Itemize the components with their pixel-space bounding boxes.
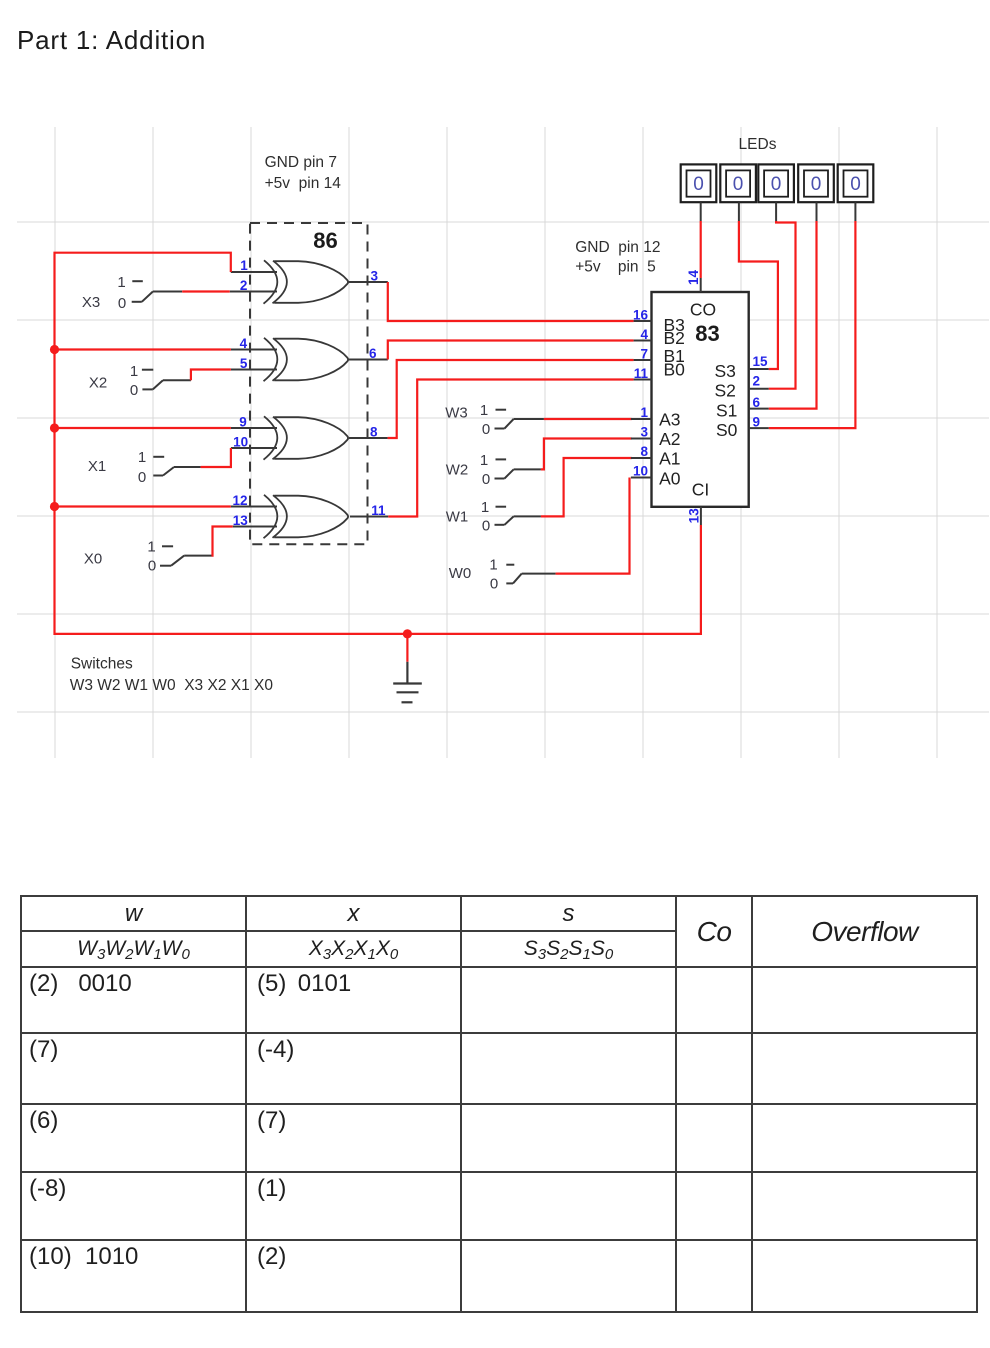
pin number 3 (U2 left) — [640, 425, 648, 440]
wire: LED1 to CO (pin 14) — [700, 221, 702, 278]
wire: CO pin 14 stub — [700, 278, 702, 292]
wire: B0 pin stub — [634, 379, 652, 381]
wire: pin 2 stub U1A — [230, 291, 277, 293]
wire: B2 pin stub — [634, 340, 652, 342]
svg-text:GND pin 7: GND pin 7 — [265, 154, 337, 171]
wire: pin 10 stub U1C — [231, 447, 277, 449]
svg-text:10: 10 — [633, 464, 648, 479]
LED indicator 2 — [720, 164, 756, 202]
ground symbol — [393, 662, 422, 703]
switch X2 — [89, 363, 191, 399]
wire: X2 switch to pin 5 — [191, 370, 231, 381]
svg-text:12: 12 — [232, 493, 247, 508]
svg-text:0: 0 — [811, 174, 822, 195]
svg-text:S2: S2 — [715, 381, 736, 401]
svg-text:1: 1 — [117, 274, 125, 291]
title — [17, 25, 206, 56]
svg-text:B0: B0 — [664, 360, 686, 380]
svg-text:+5v pin 14: +5v pin 14 — [265, 175, 342, 192]
chip port label A2 — [659, 429, 680, 449]
svg-text:8: 8 — [370, 425, 378, 440]
svg-text:X2: X2 — [89, 375, 107, 392]
wire: LED3 to S2 (pin 2) — [769, 221, 796, 389]
pin number 2 (U2 right) — [753, 374, 761, 389]
pin number 1 (U2 left) — [640, 405, 648, 420]
pin number 10 (U1) — [233, 435, 248, 450]
svg-text:0: 0 — [482, 421, 490, 438]
chip port label A3 — [659, 410, 680, 430]
wire: pin 9 stub U1C — [231, 427, 277, 429]
pin number 5 (U1) — [240, 356, 248, 371]
wire: S3 pin stub — [749, 368, 769, 370]
pin number 7 (U2 left) — [640, 347, 648, 362]
wire: pin 5 stub U1B — [231, 369, 277, 371]
chip port label B0 — [664, 360, 686, 380]
wire: S2 pin stub — [749, 388, 769, 390]
wire: LED3 output stub — [775, 202, 777, 221]
svg-text:1: 1 — [138, 449, 146, 466]
data table — [20, 895, 978, 1313]
pin number 1 (U1) — [240, 258, 248, 273]
svg-text:X0: X0 — [84, 551, 102, 568]
svg-text:0: 0 — [850, 174, 861, 195]
wire: B1 pin stub — [634, 359, 652, 361]
wire: bus tap to pin 9 — [55, 427, 231, 429]
svg-text:15: 15 — [753, 354, 769, 369]
adder chip U2 (7483) body — [652, 292, 749, 507]
wire: pin 13 stub U1D — [233, 526, 277, 528]
chip port label S0 — [716, 420, 738, 440]
wire: bus tap to pin 4 — [55, 348, 231, 350]
junction: bus to ground — [403, 629, 412, 638]
pin number 6 (U2 right) — [753, 395, 761, 410]
wire: W1 switch to A1 (pin 8) — [541, 458, 632, 516]
switch W3 — [445, 402, 544, 438]
chip port label B3 — [664, 315, 685, 335]
wire: pin 6 output stub U1B — [349, 359, 388, 361]
svg-text:S0: S0 — [716, 420, 738, 440]
svg-text:Switches: Switches — [71, 655, 133, 672]
svg-text:1: 1 — [130, 363, 138, 380]
background grid — [17, 127, 989, 758]
chip port label A0 — [659, 469, 681, 489]
wire: A3 pin stub — [631, 418, 652, 420]
chip port label S3 — [715, 361, 736, 381]
switch W0 — [449, 557, 556, 593]
svg-text:6: 6 — [753, 395, 761, 410]
chip label CI — [692, 480, 710, 500]
pin number 10 (U2 left) — [633, 464, 648, 479]
wire: X1 switch to pin 10 — [201, 448, 231, 467]
pin number 14 (U2 top, rotated) — [686, 270, 701, 286]
svg-text:+5v pin 5: +5v pin 5 — [575, 258, 656, 275]
wire: X3 switch to pin 2 — [182, 290, 230, 292]
pin number 8 (U1) — [370, 425, 378, 440]
pin number 11 (U2 left) — [634, 366, 649, 381]
svg-text:86: 86 — [313, 228, 337, 253]
svg-text:0: 0 — [733, 174, 744, 195]
svg-text:0: 0 — [148, 558, 156, 575]
pin number 9 (U2 right) — [753, 415, 761, 430]
svg-text:5: 5 — [240, 356, 248, 371]
pin number 16 (U2 left) — [633, 308, 649, 323]
wire: LED4 output stub — [816, 202, 818, 221]
xor gate U1A — [264, 260, 349, 303]
svg-text:B2: B2 — [664, 328, 685, 348]
svg-text:3: 3 — [370, 269, 378, 284]
junction: bus to pin 12 — [50, 502, 59, 511]
svg-text:0: 0 — [490, 576, 498, 593]
value label 83 — [695, 321, 719, 346]
wire: S0 pin stub — [749, 427, 769, 429]
chip port label B2 — [664, 328, 685, 348]
svg-text:11: 11 — [634, 366, 649, 381]
svg-text:0: 0 — [693, 174, 704, 195]
pin number 4 (U2 left) — [640, 327, 648, 342]
switch W2 — [446, 452, 541, 488]
svg-text:3: 3 — [640, 425, 648, 440]
chip label CO — [690, 300, 716, 320]
wire: gate U1C output to B1 (pin 7) — [388, 360, 634, 438]
svg-text:W1: W1 — [446, 509, 469, 526]
wire: pin 4 stub U1B — [231, 349, 277, 351]
svg-text:0: 0 — [138, 469, 146, 486]
svg-text:0: 0 — [130, 382, 138, 399]
svg-text:11: 11 — [371, 503, 386, 518]
switch X3 — [82, 274, 182, 312]
wire: A2 pin stub — [631, 438, 652, 440]
svg-text:4: 4 — [240, 336, 248, 351]
svg-text:4: 4 — [640, 327, 648, 342]
svg-text:X1: X1 — [88, 458, 106, 475]
svg-text:10: 10 — [233, 435, 248, 450]
LED indicator 4 — [798, 164, 834, 202]
pin number 2 (U1) — [240, 278, 248, 293]
svg-text:9: 9 — [239, 415, 247, 430]
svg-text:X3: X3 — [82, 294, 100, 311]
wire: pin 8 output stub U1C — [349, 437, 388, 439]
switch X1 — [88, 449, 201, 486]
svg-text:0: 0 — [482, 518, 490, 535]
svg-text:CO: CO — [690, 300, 716, 320]
wire: bus tap to pin 12 — [55, 505, 231, 507]
wire: W0 switch to A0 (pin 10) — [556, 478, 630, 574]
pin number 13 (U1) — [233, 513, 249, 528]
wire: pin 1 stub U1A — [231, 271, 277, 273]
svg-text:0: 0 — [482, 471, 490, 488]
svg-text:2: 2 — [753, 374, 761, 389]
svg-text:1: 1 — [147, 538, 155, 555]
svg-text:7: 7 — [640, 347, 648, 362]
svg-text:W3: W3 — [445, 405, 468, 422]
label: Switches legend — [70, 655, 274, 694]
svg-text:0: 0 — [771, 174, 782, 195]
LED indicator 3 — [758, 164, 794, 202]
wire: LED5 output stub — [854, 202, 856, 221]
xor gate U1C — [264, 416, 349, 459]
wire: pin 11 output stub U1D — [350, 516, 388, 518]
LED indicator 5 — [838, 164, 874, 202]
LED indicator 1 — [681, 164, 717, 202]
svg-text:1: 1 — [640, 405, 648, 420]
wire: A1 pin stub — [631, 457, 652, 459]
chip port label S2 — [715, 381, 736, 401]
svg-text:2: 2 — [240, 278, 248, 293]
pin number 13 (U2 bottom, rotated) — [687, 508, 702, 524]
svg-text:A0: A0 — [659, 469, 681, 489]
svg-text:1: 1 — [480, 402, 488, 419]
value label 86 — [313, 228, 337, 253]
svg-text:9: 9 — [753, 415, 761, 430]
wire: W3 switch to A3 (pin 1) — [544, 418, 632, 420]
svg-text:GND pin 12: GND pin 12 — [575, 239, 660, 256]
svg-text:1: 1 — [489, 557, 497, 574]
pin number 11 (U1) — [371, 503, 386, 518]
xor gate U1B — [264, 338, 349, 381]
svg-text:LEDs: LEDs — [739, 136, 777, 153]
svg-text:A3: A3 — [659, 410, 680, 430]
wire: LED2 output stub — [738, 202, 740, 221]
svg-text:W2: W2 — [446, 462, 469, 479]
svg-text:CI: CI — [692, 480, 710, 500]
label: GND pin 7 / +5v pin 14 for chip 86 — [265, 154, 342, 192]
IC 7486 dashed outline U1 — [250, 223, 368, 544]
svg-text:14: 14 — [686, 270, 701, 286]
wire: gate U1A output to B3 (pin 16) — [388, 282, 634, 321]
wire: LED2 to S3 (pin 15) — [739, 221, 778, 369]
switch X0 — [84, 538, 212, 574]
pin number 4 (U1) — [240, 336, 248, 351]
wire: LED5 to S0 (pin 9) — [769, 221, 856, 428]
chip port label A1 — [659, 449, 680, 469]
pin number 6 (U1) — [369, 346, 377, 361]
wire: pin 3 output stub U1A — [349, 281, 388, 283]
junction: bus to pin 9 — [50, 423, 59, 432]
wire: X0 switch to pin 13 — [212, 527, 233, 556]
svg-text:0: 0 — [118, 295, 126, 312]
pin number 12 (U1) — [232, 493, 247, 508]
svg-text:1: 1 — [480, 452, 488, 469]
wire: pin 12 stub U1D — [231, 506, 277, 508]
pin number 9 (U1) — [239, 415, 247, 430]
wire: CI pin 13 stub — [700, 507, 702, 525]
label: LEDs — [739, 136, 777, 153]
svg-text:83: 83 — [695, 321, 719, 346]
svg-text:8: 8 — [640, 444, 648, 459]
wire: gate U1B output to B2 (pin 4) — [388, 341, 634, 360]
svg-text:1: 1 — [481, 499, 489, 516]
svg-text:A1: A1 — [659, 449, 680, 469]
wire: ground tap from bus — [406, 634, 408, 662]
svg-text:13: 13 — [687, 508, 702, 524]
pin number 15 (U2 right) — [753, 354, 769, 369]
pin number 3 (U1) — [370, 269, 378, 284]
wire: LED1 output stub — [700, 202, 702, 221]
wire: S1 pin stub — [749, 408, 769, 410]
label: GND pin 12 / +5v pin 5 for chip 83 — [575, 239, 660, 275]
pin number 8 (U2 left) — [640, 444, 648, 459]
chip port label B1 — [664, 346, 685, 366]
svg-text:W3 W2 W1 W0 X3 X2 X1 X0: W3 W2 W1 W0 X3 X2 X1 X0 — [70, 677, 274, 694]
svg-text:1: 1 — [240, 258, 248, 273]
junction: bus to pin 4 — [50, 345, 59, 354]
wire: X3 top input to pin 1 and ground bus — [55, 253, 701, 634]
svg-text:W0: W0 — [449, 565, 472, 582]
svg-text:13: 13 — [233, 513, 249, 528]
svg-text:A2: A2 — [659, 429, 680, 449]
svg-text:6: 6 — [369, 346, 377, 361]
wire: B3 pin stub — [634, 320, 652, 322]
wire: LED4 to S1 (pin 6) — [769, 221, 817, 409]
svg-text:S3: S3 — [715, 361, 736, 381]
chip port label S1 — [716, 401, 737, 421]
svg-text:S1: S1 — [716, 401, 737, 421]
switch W1 — [446, 499, 541, 534]
xor gate U1D — [264, 495, 349, 538]
wire: W2 switch to A2 (pin 3) — [541, 439, 632, 470]
wire: gate U1D output to B0 (pin 11) — [388, 380, 633, 517]
svg-text:16: 16 — [633, 308, 649, 323]
wire: A0 pin stub — [631, 477, 652, 479]
